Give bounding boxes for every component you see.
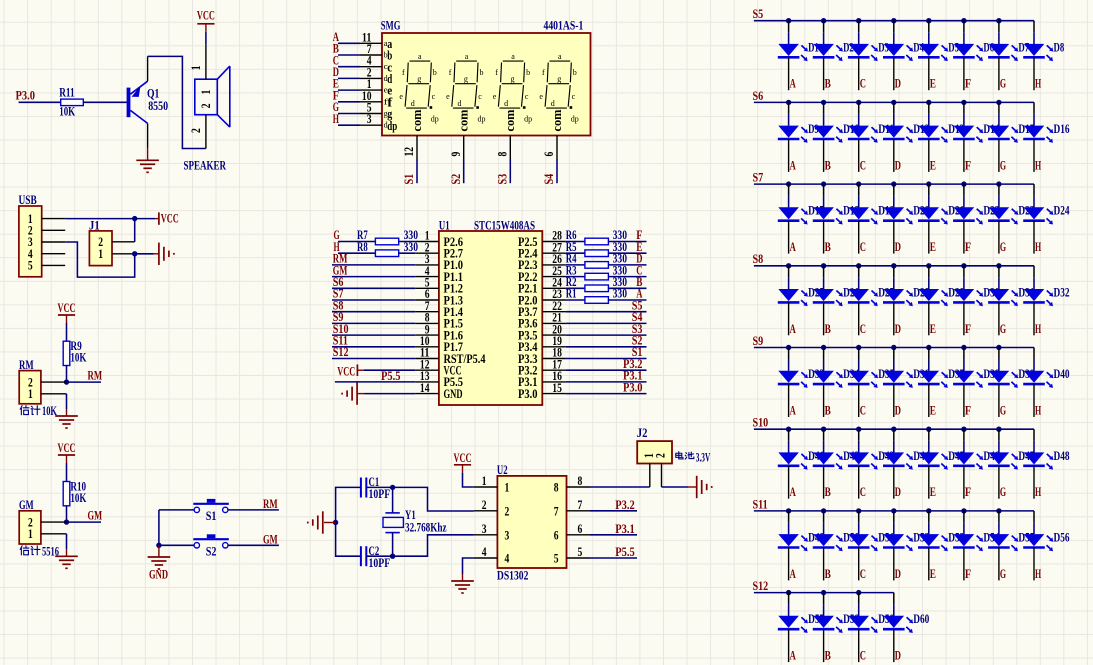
svg-text:f: f: [542, 68, 545, 77]
wire: [928, 511, 930, 523]
svg-text:F: F: [965, 404, 971, 418]
junction: [961, 263, 966, 268]
svg-text:D8: D8: [1054, 40, 1065, 54]
svg-text:H: H: [1035, 158, 1041, 172]
wire: [566, 311, 647, 313]
svg-text:A: A: [790, 322, 796, 336]
junction: [821, 508, 826, 513]
wire: [66, 366, 68, 383]
resistor R8: [375, 250, 398, 257]
svg-text:GND: GND: [444, 387, 463, 401]
pin 8: [509, 136, 511, 160]
pin: [893, 139, 895, 172]
svg-text:dp: dp: [524, 115, 532, 124]
svg-text:c: c: [432, 92, 436, 101]
resistor R2: [585, 285, 609, 292]
svg-text:8: 8: [578, 474, 583, 488]
wire: [67, 521, 102, 523]
resistor R11: [61, 99, 84, 106]
LED D5: [918, 44, 948, 61]
svg-text:D: D: [895, 404, 901, 418]
svg-text:J2: J2: [637, 426, 648, 440]
wire: [65, 218, 155, 220]
wire: [566, 369, 647, 371]
pin: [858, 629, 860, 662]
resistor R6: [585, 238, 609, 245]
junction: [961, 345, 966, 350]
pin: [998, 384, 1000, 417]
LED D20: [883, 207, 913, 224]
svg-text:D: D: [895, 158, 901, 172]
pin 6: [567, 534, 591, 536]
svg-text:A: A: [790, 240, 796, 254]
rtc U2: [497, 476, 566, 568]
wire: [66, 506, 68, 522]
wire: [928, 102, 930, 114]
wire: [365, 393, 416, 395]
svg-text:2: 2: [189, 128, 203, 133]
wire: [963, 511, 965, 523]
switch S1: [193, 499, 229, 513]
wire: [566, 264, 585, 266]
wire: [998, 21, 1000, 33]
svg-text:VCC: VCC: [337, 365, 355, 379]
svg-text:P5.5: P5.5: [381, 369, 401, 383]
LED D38: [953, 371, 983, 388]
wire: [66, 394, 68, 409]
LED D18: [813, 207, 843, 224]
svg-text:5: 5: [554, 552, 559, 566]
svg-text:GM: GM: [88, 509, 103, 523]
svg-text:1: 1: [28, 387, 33, 401]
wire: [338, 77, 360, 79]
junction: [961, 427, 966, 432]
svg-text:a: a: [558, 52, 562, 61]
wire: [393, 487, 474, 511]
pin: [823, 139, 825, 172]
pin: [823, 466, 825, 499]
pin 2: [205, 115, 207, 149]
wire: [928, 21, 930, 33]
svg-text:H: H: [333, 112, 339, 126]
pin 2: [41, 381, 67, 383]
pin: [823, 57, 825, 90]
svg-text:330: 330: [613, 287, 627, 301]
wire: [788, 21, 790, 33]
LED D23: [988, 207, 1018, 224]
wire: [566, 322, 647, 324]
svg-text:a: a: [511, 52, 515, 61]
mcu U1: [439, 231, 542, 405]
wire: [823, 511, 825, 523]
svg-text:D60: D60: [913, 612, 929, 626]
pin 8: [567, 486, 591, 488]
wire: [823, 184, 825, 196]
svg-text:10K: 10K: [42, 404, 57, 418]
LED D7: [988, 44, 1018, 61]
wire: [963, 348, 965, 360]
junction: [821, 427, 826, 432]
svg-text:dp: dp: [571, 115, 579, 124]
junction: [856, 18, 861, 23]
pin 9: [415, 334, 439, 336]
connector J1: [89, 231, 112, 266]
wire: [928, 348, 930, 360]
wire: [228, 509, 279, 511]
capacitor C2: [361, 546, 366, 566]
pin: [1033, 57, 1035, 90]
svg-text:5: 5: [578, 545, 583, 559]
power VCC: [337, 364, 364, 378]
ground: [451, 574, 474, 593]
pin 10: [360, 101, 382, 103]
pin 17: [542, 369, 566, 371]
junction: [926, 18, 931, 23]
junction: [856, 508, 861, 513]
value 估计10K: [20, 404, 57, 418]
pin: [998, 466, 1000, 499]
LED D29: [918, 289, 948, 306]
pin 1: [42, 218, 65, 220]
svg-text:E: E: [930, 322, 936, 336]
svg-text:GND: GND: [149, 568, 168, 582]
svg-text:10K: 10K: [70, 351, 86, 365]
svg-text:J1: J1: [89, 218, 100, 232]
svg-text:6: 6: [578, 522, 583, 536]
pin 3: [42, 241, 65, 243]
svg-text:b: b: [480, 68, 484, 77]
wire: [159, 544, 194, 546]
svg-text:S3: S3: [496, 174, 510, 185]
svg-text:D: D: [895, 77, 901, 91]
pin: [858, 221, 860, 254]
ground: [55, 549, 78, 568]
svg-text:D32: D32: [1054, 285, 1070, 299]
LED D40: [1023, 371, 1053, 388]
digit 3 segments: [493, 52, 532, 124]
pin 5: [360, 113, 382, 115]
wire: [858, 348, 860, 360]
svg-text:C: C: [860, 649, 866, 663]
pin 19: [542, 346, 566, 348]
svg-text:e: e: [539, 92, 543, 101]
wire: [1033, 511, 1035, 523]
pin: [858, 548, 860, 581]
LED D1: [778, 44, 808, 61]
pin: [893, 466, 895, 499]
power VCC: [58, 441, 76, 463]
LED D22: [953, 207, 983, 224]
svg-text:A: A: [790, 404, 796, 418]
wire: [788, 184, 790, 196]
wire: [963, 184, 965, 196]
junction: [996, 345, 1001, 350]
svg-text:1: 1: [199, 90, 213, 95]
value 估计5516: [20, 544, 59, 558]
pin 10: [415, 346, 439, 348]
svg-text:f: f: [495, 68, 498, 77]
svg-text:D: D: [895, 322, 901, 336]
wire: [754, 428, 1034, 430]
wire: [608, 241, 646, 243]
svg-text:S2: S2: [449, 174, 463, 185]
svg-text:G: G: [1000, 567, 1006, 581]
digit 4 segments: [539, 52, 578, 124]
junction: [390, 554, 395, 559]
svg-text:A: A: [790, 485, 796, 499]
LED D13: [918, 126, 948, 143]
junction: [821, 100, 826, 105]
svg-text:S1: S1: [206, 509, 217, 523]
wire: [66, 534, 68, 550]
LED D4: [883, 44, 913, 61]
svg-text:VCC: VCC: [197, 9, 215, 23]
wire: [566, 334, 647, 336]
wire: [463, 473, 474, 487]
pin: [858, 302, 860, 335]
wire: [566, 358, 647, 360]
wire: [392, 533, 394, 557]
pin 2: [41, 521, 67, 523]
svg-text:E: E: [930, 404, 936, 418]
svg-text:R1: R1: [566, 287, 577, 301]
junction: [821, 181, 826, 186]
wire: [566, 252, 585, 254]
svg-text:f: f: [402, 68, 405, 77]
wire: [566, 346, 647, 348]
pin 14: [415, 393, 439, 395]
junction: [821, 263, 826, 268]
junction: [156, 543, 161, 548]
LED D17: [778, 207, 808, 224]
svg-text:SMG: SMG: [381, 19, 401, 33]
wire: [998, 184, 1000, 196]
svg-text:H: H: [1035, 322, 1041, 336]
LED D54: [953, 534, 983, 551]
wire: [590, 534, 637, 536]
svg-text:C: C: [860, 77, 866, 91]
junction: [926, 181, 931, 186]
wire: [338, 124, 360, 126]
pin: [788, 139, 790, 172]
wire: [858, 593, 860, 605]
svg-text:7: 7: [578, 498, 583, 512]
display SMG: [382, 33, 591, 136]
svg-text:H: H: [1035, 485, 1041, 499]
wire: [1033, 348, 1035, 360]
wire: [1033, 266, 1035, 278]
pin: [858, 57, 860, 90]
svg-text:10K: 10K: [70, 491, 86, 505]
junction: [996, 263, 1001, 268]
pin: [1033, 466, 1035, 499]
svg-text:C: C: [860, 322, 866, 336]
junction: [926, 508, 931, 513]
pin: [893, 221, 895, 254]
pin 4: [42, 253, 65, 255]
pin: [788, 221, 790, 254]
wire: [338, 42, 360, 44]
svg-text:15: 15: [552, 381, 562, 395]
svg-text:P3.0: P3.0: [16, 89, 36, 103]
LED D59: [848, 616, 878, 633]
wire: [928, 266, 930, 278]
svg-text:G: G: [1000, 485, 1006, 499]
svg-text:a: a: [465, 52, 469, 61]
pin: [928, 548, 930, 581]
svg-text:2: 2: [654, 453, 668, 458]
svg-text:12: 12: [402, 147, 416, 157]
wire: [754, 265, 1034, 267]
svg-text:D: D: [895, 649, 901, 663]
LED D31: [988, 289, 1018, 306]
svg-text:H: H: [1035, 567, 1041, 581]
wire: [338, 113, 360, 115]
pin 23: [542, 299, 566, 301]
pin: [858, 384, 860, 417]
pin: [998, 221, 1000, 254]
LED D24: [1023, 207, 1053, 224]
wire: [928, 184, 930, 196]
transistor Q1: [127, 56, 148, 147]
pin 5: [567, 557, 591, 559]
pin 1: [41, 533, 67, 535]
wire: [788, 348, 790, 360]
wire: [66, 323, 68, 341]
wire: [83, 101, 127, 103]
svg-text:B: B: [825, 485, 831, 499]
svg-text:G: G: [1000, 322, 1006, 336]
pin 2: [42, 229, 65, 231]
pin: [998, 139, 1000, 172]
digit 1 segments: [399, 52, 438, 124]
junction: [961, 18, 966, 23]
svg-text:S12: S12: [333, 345, 349, 359]
svg-text:S10: S10: [753, 416, 769, 430]
pin: [1033, 548, 1035, 581]
power VCC: [454, 451, 472, 473]
pin 2: [360, 77, 382, 79]
LED D35: [848, 371, 878, 388]
svg-text:B: B: [825, 240, 831, 254]
svg-text:9: 9: [449, 152, 463, 157]
LED D44: [883, 452, 913, 469]
svg-text:P3.1: P3.1: [615, 522, 635, 536]
wire: [338, 252, 375, 254]
wire: [608, 264, 646, 266]
ground: [136, 148, 159, 173]
svg-text:C: C: [860, 158, 866, 172]
pin 24: [542, 287, 566, 289]
pin: [928, 221, 930, 254]
svg-text:G: G: [1000, 404, 1006, 418]
svg-text:5: 5: [28, 259, 33, 273]
wire: [556, 159, 558, 183]
svg-text:1: 1: [482, 474, 487, 488]
svg-text:C: C: [860, 567, 866, 581]
wire: [590, 557, 637, 559]
ground: [55, 409, 78, 428]
svg-text:C: C: [860, 404, 866, 418]
pin: [963, 302, 965, 335]
svg-text:VCC: VCC: [58, 301, 76, 315]
LED D49: [778, 534, 808, 551]
LED D21: [918, 207, 948, 224]
pin 2: [112, 241, 135, 243]
junction: [891, 263, 896, 268]
pin 4: [474, 557, 498, 559]
trimmer RM: [19, 371, 41, 404]
wire: [399, 241, 416, 243]
power VCC: [58, 301, 76, 323]
pin 18: [542, 358, 566, 360]
svg-text:32.768Khz: 32.768Khz: [405, 520, 447, 534]
junction: [996, 18, 1001, 23]
junction: [961, 100, 966, 105]
pin: [788, 548, 790, 581]
pin 1: [41, 393, 67, 395]
wire: [662, 486, 689, 488]
wire: [566, 276, 585, 278]
wire: [1033, 429, 1035, 441]
svg-text:e: e: [446, 92, 450, 101]
pin 5: [42, 264, 65, 266]
pin 12: [415, 369, 439, 371]
svg-text:R8: R8: [357, 240, 368, 254]
junction: [891, 181, 896, 186]
svg-text:P3.2: P3.2: [615, 498, 635, 512]
svg-text:10PF: 10PF: [369, 556, 391, 570]
wire: [1033, 21, 1035, 33]
wire: [332, 276, 415, 278]
wire: [393, 535, 474, 556]
wire: [998, 266, 1000, 278]
junction: [856, 181, 861, 186]
junction: [786, 427, 791, 432]
wire: [590, 486, 650, 488]
LED D42: [813, 452, 843, 469]
wire: [858, 511, 860, 523]
svg-text:E: E: [930, 158, 936, 172]
svg-text:g: g: [464, 74, 468, 83]
wire: [158, 510, 160, 545]
svg-text:1: 1: [98, 247, 103, 261]
svg-text:DS1302: DS1302: [497, 568, 528, 582]
wire: [366, 555, 392, 557]
pin: [893, 548, 895, 581]
wire: [338, 66, 360, 68]
pin: [788, 384, 790, 417]
junction: [891, 427, 896, 432]
svg-text:GM: GM: [263, 532, 278, 546]
svg-text:com: com: [550, 109, 564, 132]
pin: [998, 302, 1000, 335]
pin: [1033, 221, 1035, 254]
svg-text:A: A: [790, 567, 796, 581]
wire: [823, 593, 825, 605]
wire: [998, 429, 1000, 441]
LED D19: [848, 207, 878, 224]
svg-text:c: c: [525, 92, 529, 101]
pin 1: [112, 253, 135, 255]
wire: [788, 511, 790, 523]
wire: [608, 299, 646, 301]
LED D32: [1023, 289, 1053, 306]
svg-text:C: C: [860, 240, 866, 254]
LED D11: [848, 126, 878, 143]
pin: [998, 57, 1000, 90]
LED D14: [953, 126, 983, 143]
